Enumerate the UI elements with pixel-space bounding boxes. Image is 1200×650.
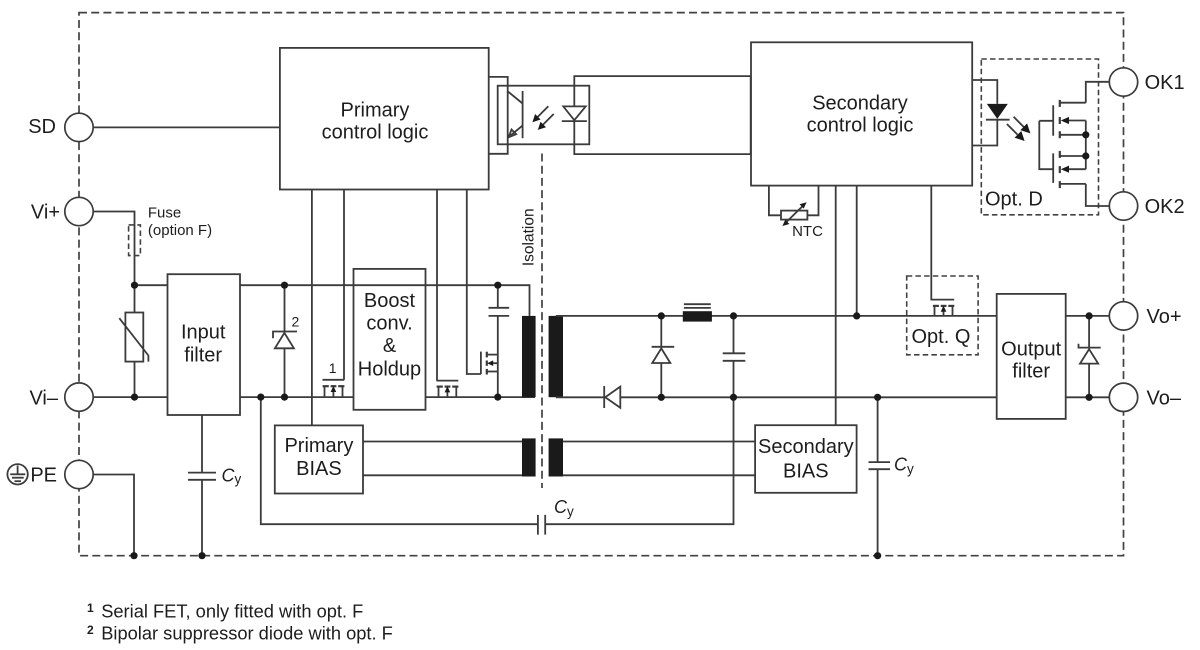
transformer T1 secondary winding — [549, 316, 563, 397]
svg-text:Vi+: Vi+ — [31, 202, 60, 224]
svg-text:Secondary: Secondary — [812, 92, 908, 114]
svg-text:Vo+: Vo+ — [1147, 306, 1182, 328]
wire secondary control to Secondary BIAS — [835, 186, 837, 426]
varistor RV1 branch wires — [134, 285, 136, 397]
svg-text:Output: Output — [1001, 339, 1061, 361]
wire gate of rail FET — [436, 190, 438, 381]
terminal Vo- — [1109, 383, 1137, 411]
wire bottom rail boost to transformer — [426, 396, 536, 398]
terminal Vi+ — [65, 197, 93, 225]
optocoupler U1 light arrows — [536, 106, 548, 118]
wire top input rail to transformer — [240, 285, 530, 316]
bipolar suppressor diode 2 — [273, 332, 297, 339]
svg-text:Holdup: Holdup — [358, 359, 421, 381]
wire bias secondary links — [563, 442, 755, 476]
wire secondary control to top rail — [856, 186, 858, 316]
optocoupler U1 phototransistor — [522, 91, 524, 138]
wire gate of Opt Q FET — [931, 186, 954, 300]
wire bottom rail filter to boost — [240, 396, 354, 398]
transformer T2 bias primary winding — [522, 438, 536, 476]
wire secondary top rail — [556, 315, 997, 317]
svg-text:filter: filter — [1012, 361, 1050, 383]
svg-text:Opt. D: Opt. D — [985, 189, 1043, 211]
svg-text:PE: PE — [30, 465, 57, 487]
wire gate of serial FET 1 — [343, 190, 345, 380]
optocoupler U1 tab on primary control logic — [489, 77, 508, 154]
svg-text:SD: SD — [28, 116, 56, 138]
wire secondary top rail to Vo+ — [1066, 315, 1110, 317]
terminal Vo+ — [1109, 302, 1137, 330]
terminal PE — [65, 460, 93, 488]
transistor Q4 Opt Q FET — [933, 306, 954, 316]
wire gate of main switch FET — [467, 190, 481, 375]
block Boost conv. & Holdup — [354, 269, 426, 410]
zener diode output — [1088, 316, 1090, 397]
transformer T2 bias secondary winding — [549, 438, 563, 476]
svg-text:OK1: OK1 — [1145, 72, 1185, 94]
svg-text:Opt. Q: Opt. Q — [912, 326, 971, 348]
svg-text:Secondary: Secondary — [758, 436, 854, 458]
suppressor diode branch wire — [284, 285, 286, 397]
transistor Q6 channel and stubs — [1060, 151, 1086, 188]
optocoupler U2 tab on secondary control logic — [972, 80, 997, 146]
block Primary control logic — [280, 48, 489, 190]
optocoupler U2 LED — [987, 104, 1008, 119]
svg-text:Vo–: Vo– — [1147, 388, 1182, 410]
wire PE to border — [93, 475, 134, 556]
wire bias primary links — [363, 442, 522, 476]
svg-text:&: & — [383, 335, 397, 357]
svg-text:BIAS: BIAS — [296, 458, 342, 480]
svg-text:control logic: control logic — [807, 115, 914, 137]
capacitor C holdup — [489, 308, 510, 316]
svg-text:OK2: OK2 — [1145, 196, 1185, 218]
wire secondary bottom rail to Vo- — [1066, 396, 1110, 398]
thermistor NTC wires — [769, 186, 819, 216]
wire bottom input rail Vi- — [94, 396, 168, 398]
svg-text:C: C — [554, 497, 568, 517]
varistor RV1 — [125, 313, 143, 362]
capacitor Cy input filter — [201, 415, 203, 556]
svg-text:(option F): (option F) — [148, 222, 212, 239]
capacitor Cy secondary — [877, 397, 879, 555]
svg-text:Primary: Primary — [284, 435, 353, 457]
svg-text:BIAS: BIAS — [783, 461, 829, 483]
svg-text:y: y — [567, 504, 574, 519]
inductor L1 — [684, 304, 711, 308]
transistor Q3 main switch — [481, 352, 498, 375]
svg-text:Fuse: Fuse — [148, 205, 181, 222]
svg-text:control logic: control logic — [322, 122, 429, 144]
block Output filter — [997, 294, 1066, 419]
thermistor NTC — [781, 211, 807, 220]
transistor Q1 serial FET (option F) — [323, 380, 345, 397]
svg-text:filter: filter — [184, 345, 222, 367]
Opt. Q dashed box — [907, 276, 978, 355]
enclosure dashed border — [79, 13, 1124, 556]
wire SD to primary control logic — [93, 126, 280, 128]
transistor Q5 Q6 dual output FET gates — [1039, 121, 1053, 169]
svg-text:C: C — [222, 466, 236, 486]
svg-text:C: C — [894, 455, 908, 475]
wire to OK2 — [1086, 184, 1110, 206]
wire Vi+ to fuse and input rail — [93, 212, 134, 286]
svg-text:y: y — [907, 462, 914, 477]
wire secondary bottom rail — [620, 396, 996, 398]
optocoupler U1 body box — [498, 86, 590, 145]
fuse F1 (option F) dashed body — [129, 225, 141, 256]
diode D2 freewheel — [660, 316, 662, 397]
svg-text:2Bipolar suppressor diode with: 2Bipolar suppressor diode with opt. F — [87, 623, 393, 644]
terminal OK1 — [1109, 68, 1137, 96]
dual FET source tie — [1085, 121, 1087, 170]
Opt. D dashed box — [981, 59, 1098, 215]
wire secondary bottom rail from winding to diode — [556, 396, 604, 398]
optocoupler U1 LED — [563, 106, 585, 120]
terminal Vi- — [65, 383, 93, 411]
diode D1 series rectifier — [603, 386, 605, 408]
transistor Q5 channel and stubs — [1060, 100, 1086, 138]
svg-text:Input: Input — [181, 322, 226, 344]
block Secondary BIAS — [755, 425, 857, 493]
block Input filter — [168, 274, 241, 415]
transformer T1 primary winding — [522, 316, 536, 397]
capacitor Cy bridge primary-secondary — [261, 397, 734, 524]
svg-text:y: y — [235, 472, 242, 487]
terminal SD — [65, 113, 93, 141]
svg-text:Isolation: Isolation — [521, 208, 538, 266]
wire to OK1 — [1086, 82, 1110, 103]
svg-text:Boost: Boost — [364, 290, 416, 312]
capacitor C output — [733, 316, 735, 397]
transistor Q2 rail FET — [437, 381, 459, 398]
svg-text:Primary: Primary — [341, 99, 410, 121]
optocoupler U2 light arrows — [1014, 117, 1025, 128]
earth symbol — [7, 464, 27, 484]
isolation barrier dashed line — [541, 154, 543, 489]
block Secondary control logic — [751, 42, 972, 185]
svg-text:Vi–: Vi– — [29, 387, 58, 409]
wire top input rail — [135, 284, 168, 286]
optocoupler U1 LED frame rect — [574, 76, 750, 154]
capacitor holdup branch wire — [497, 285, 499, 397]
block Primary BIAS — [275, 425, 363, 493]
svg-text:NTC: NTC — [792, 223, 823, 240]
svg-text:1: 1 — [329, 360, 337, 376]
svg-text:2: 2 — [292, 314, 300, 330]
terminal OK2 — [1109, 192, 1137, 220]
svg-text:conv.: conv. — [366, 313, 412, 335]
wire primary control to Primary BIAS — [311, 190, 313, 426]
svg-text:1Serial FET, only fitted with: 1Serial FET, only fitted with opt. F — [87, 601, 363, 622]
